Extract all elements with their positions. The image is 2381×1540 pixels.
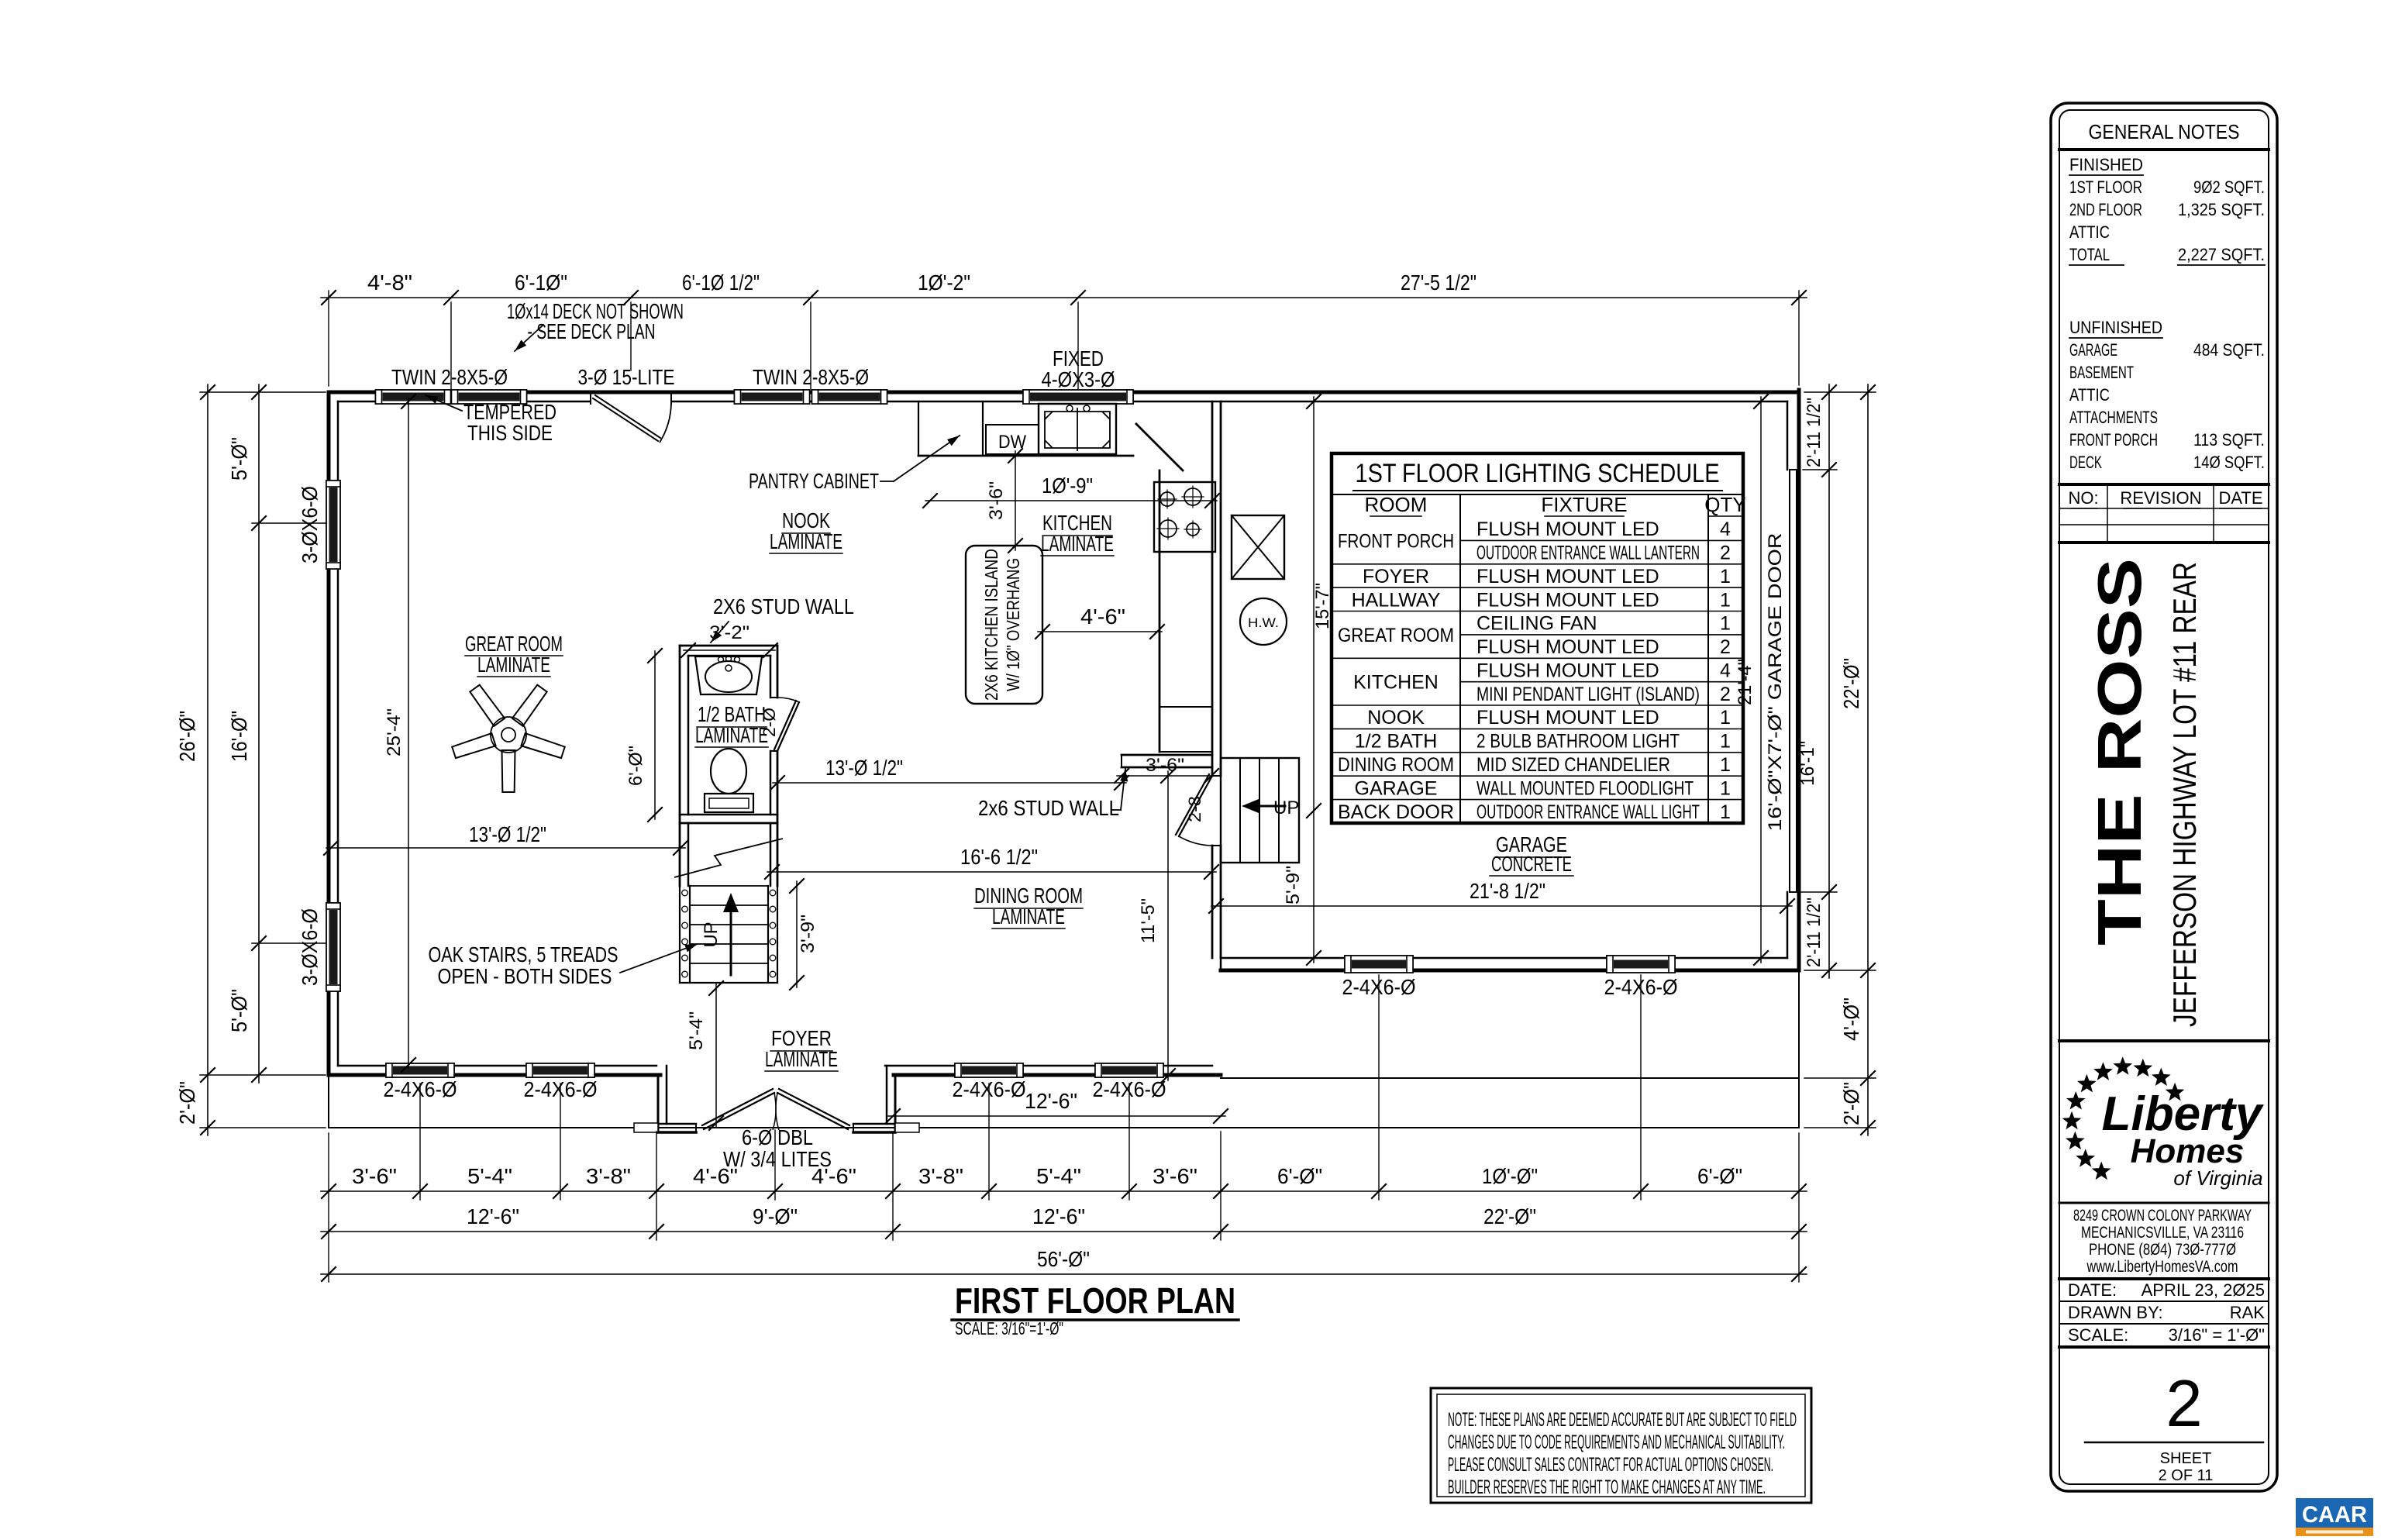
svg-text:LAMINATE: LAMINATE xyxy=(695,723,768,747)
porch left edge xyxy=(328,1075,329,1128)
svg-text:12'-6": 12'-6" xyxy=(1025,1089,1077,1113)
svg-text:LAMINATE: LAMINATE xyxy=(992,904,1065,928)
back door leaf xyxy=(1179,776,1212,836)
svg-text:9Ø2 SQFT.: 9Ø2 SQFT. xyxy=(2193,177,2265,197)
svg-text:REVISION: REVISION xyxy=(2120,488,2201,508)
svg-text:6'-Ø": 6'-Ø" xyxy=(625,746,646,786)
svg-text:3'-8": 3'-8" xyxy=(918,1164,963,1188)
svg-text:6'-1Ø 1/2": 6'-1Ø 1/2" xyxy=(682,270,760,295)
svg-text:2'-11 1/2": 2'-11 1/2" xyxy=(1804,897,1825,967)
window TWIN 2-8X5-0 (left pair, rear wall) xyxy=(376,390,451,404)
garage steps risers xyxy=(1239,758,1241,863)
svg-text:1: 1 xyxy=(1720,707,1731,729)
half bath top wall xyxy=(680,645,777,647)
svg-text:LAMINATE: LAMINATE xyxy=(770,529,842,553)
bath sink bowl oval xyxy=(705,661,752,692)
foyer door center arcs xyxy=(773,1093,776,1130)
svg-text:8249 CROWN COLONY PARKWAY: 8249 CROWN COLONY PARKWAY xyxy=(2073,1207,2252,1225)
svg-text:FIRST FLOOR PLAN: FIRST FLOOR PLAN xyxy=(955,1280,1235,1321)
foyer recess left jamb xyxy=(657,1075,660,1130)
svg-text:5'-4": 5'-4" xyxy=(1036,1164,1081,1188)
left outer dimension line 26'-0" and 2'-0" xyxy=(207,384,208,1135)
svg-text:APRIL 23, 2Ø25: APRIL 23, 2Ø25 xyxy=(2142,1280,2265,1300)
half bath door swing arc xyxy=(778,698,799,702)
address divider xyxy=(2059,1202,2269,1204)
svg-text:ROOM: ROOM xyxy=(1365,493,1428,516)
svg-text:FLUSH MOUNT LED: FLUSH MOUNT LED xyxy=(1476,589,1659,611)
svg-text:DATE: DATE xyxy=(2218,488,2262,508)
svg-text:UP: UP xyxy=(1273,798,1299,818)
stair balusters right xyxy=(770,890,776,896)
front wall left section inner xyxy=(338,1065,656,1067)
note box outer border xyxy=(1431,1388,1811,1503)
svg-text:FLUSH MOUNT LED: FLUSH MOUNT LED xyxy=(1476,566,1659,587)
revision table lines xyxy=(2059,508,2269,509)
dining width dimension 12'-6" xyxy=(888,1115,1225,1117)
kitchen counter bottom edge xyxy=(918,455,1133,457)
porch right edge xyxy=(1798,970,1800,1128)
svg-text:FIXTURE: FIXTURE xyxy=(1541,493,1627,516)
svg-text:FLUSH MOUNT LED: FLUSH MOUNT LED xyxy=(1476,707,1659,729)
pantry leader arrow xyxy=(880,481,894,482)
svg-text:3-ØX6-Ø: 3-ØX6-Ø xyxy=(298,908,322,986)
svg-text:UP: UP xyxy=(701,922,722,947)
svg-text:26'-Ø": 26'-Ø" xyxy=(175,711,199,762)
kitchen cabinet bottom section xyxy=(1159,706,1212,708)
svg-text:3-ØX6-Ø: 3-ØX6-Ø xyxy=(298,486,322,563)
svg-text:484 SQFT.: 484 SQFT. xyxy=(2193,340,2265,360)
title block inner border xyxy=(2059,110,2269,1484)
dimension 11'-5" (rotated) xyxy=(1167,771,1169,1080)
great room ceiling fan xyxy=(502,750,515,792)
svg-text:5'-9": 5'-9" xyxy=(1283,866,1304,904)
svg-text:14Ø SQFT.: 14Ø SQFT. xyxy=(2193,453,2265,472)
svg-text:2X6 STUD WALL: 2X6 STUD WALL xyxy=(713,594,854,618)
svg-text:2: 2 xyxy=(1720,684,1731,705)
window 2-4X6-0 garage front #1 xyxy=(1345,956,1413,973)
svg-text:2: 2 xyxy=(2166,1367,2202,1441)
right extension lines xyxy=(1804,391,1876,393)
bath depth dimension 6'-0" (rotated) xyxy=(654,651,656,819)
svg-text:1Ø'-Ø": 1Ø'-Ø" xyxy=(1482,1164,1538,1188)
svg-text:TOTAL: TOTAL xyxy=(2069,245,2110,264)
island gap dimension 3'-6" (rotated) xyxy=(1015,451,1016,550)
garage door panel on right wall xyxy=(1790,470,1797,892)
svg-text:GARAGE: GARAGE xyxy=(2069,340,2117,360)
svg-text:FLUSH MOUNT LED: FLUSH MOUNT LED xyxy=(1476,660,1659,682)
closet wall by back door xyxy=(1122,754,1212,756)
svg-text:6'-1Ø": 6'-1Ø" xyxy=(515,270,567,295)
svg-text:4'-6": 4'-6" xyxy=(811,1164,856,1188)
svg-text:16'-Ø"X7'-Ø" GARAGE DOOR: 16'-Ø"X7'-Ø" GARAGE DOOR xyxy=(1765,533,1786,832)
svg-text:22'-Ø": 22'-Ø" xyxy=(1483,1204,1536,1228)
svg-text:1Ø'-2": 1Ø'-2" xyxy=(918,270,970,295)
svg-text:www.LibertyHomesVA.com: www.LibertyHomesVA.com xyxy=(2086,1258,2238,1276)
stair break line xyxy=(674,839,783,877)
svg-text:6'-Ø": 6'-Ø" xyxy=(1277,1164,1322,1188)
front wall right section outer xyxy=(894,1073,1221,1077)
toilet bowl xyxy=(711,749,746,794)
svg-text:SCALE:: SCALE: xyxy=(2068,1325,2128,1345)
porch front edge line xyxy=(329,1127,1799,1128)
svg-text:FLUSH MOUNT LED: FLUSH MOUNT LED xyxy=(1476,519,1659,540)
svg-text:PANTRY CABINET: PANTRY CABINET xyxy=(749,469,879,493)
svg-text:9'-Ø": 9'-Ø" xyxy=(753,1204,798,1228)
garage front wall outer xyxy=(1221,969,1799,973)
svg-text:OPEN - BOTH SIDES: OPEN - BOTH SIDES xyxy=(438,964,612,988)
garage steps UP arrow xyxy=(1253,805,1285,808)
svg-text:W/ 1Ø" OVERHANG: W/ 1Ø" OVERHANG xyxy=(1003,558,1023,691)
svg-text:56'-Ø": 56'-Ø" xyxy=(1037,1247,1090,1271)
svg-text:DRAWN BY:: DRAWN BY: xyxy=(2068,1303,2163,1322)
svg-text:12'-6": 12'-6" xyxy=(467,1204,519,1228)
garage interior dimension 15'-7" and 5'-9" line xyxy=(1313,397,1315,963)
svg-text:3-Ø 15-LITE: 3-Ø 15-LITE xyxy=(578,365,675,389)
CAAR logo blue box xyxy=(2296,1498,2373,1528)
closet dimension 3'-6" xyxy=(1117,775,1216,777)
svg-text:2ND FLOOR: 2ND FLOOR xyxy=(2069,200,2142,219)
svg-text:2 OF 11: 2 OF 11 xyxy=(2159,1467,2214,1484)
svg-text:H.W.: H.W. xyxy=(1248,615,1279,630)
svg-text:3'-8": 3'-8" xyxy=(586,1164,631,1188)
svg-text:FINISHED: FINISHED xyxy=(2069,155,2143,174)
svg-text:2X6 KITCHEN ISLAND: 2X6 KITCHEN ISLAND xyxy=(981,549,1001,701)
svg-text:- SEE DECK PLAN: - SEE DECK PLAN xyxy=(528,319,656,343)
bottom extension lines xyxy=(328,1133,329,1282)
window 2-4X6-0 front wall #1 xyxy=(386,1063,454,1077)
svg-text:FRONT PORCH: FRONT PORCH xyxy=(1338,530,1454,552)
svg-text:LAMINATE: LAMINATE xyxy=(1041,532,1114,556)
stoop edge in front of garage xyxy=(1221,1077,1799,1079)
back door swing arc xyxy=(1179,836,1212,846)
svg-text:4: 4 xyxy=(1720,519,1731,540)
exterior wall - top (rear) outer line xyxy=(329,391,1799,394)
svg-text:12'-6": 12'-6" xyxy=(1032,1204,1085,1228)
svg-text:of Virginia: of Virginia xyxy=(2173,1166,2262,1190)
svg-text:NOOK: NOOK xyxy=(1367,707,1425,729)
kitchen island rounded rect xyxy=(966,546,1042,704)
garage width dimension 21'-8 1/2" xyxy=(1211,905,1792,907)
oak stairs leader xyxy=(620,944,698,973)
svg-text:4'-6": 4'-6" xyxy=(1080,605,1125,629)
top dimension extension lines xyxy=(328,291,329,386)
svg-text:CHANGES DUE TO CODE REQUIREMEN: CHANGES DUE TO CODE REQUIREMENTS AND MEC… xyxy=(1448,1431,1785,1453)
svg-text:TWIN 2-8X5-Ø: TWIN 2-8X5-Ø xyxy=(391,365,508,389)
interior dimension 25'-4" (rotated) xyxy=(408,398,409,1068)
stair treads xyxy=(690,885,768,887)
svg-text:2'-11 1/2": 2'-11 1/2" xyxy=(1804,398,1825,467)
svg-text:2 BULB BATHROOM LIGHT: 2 BULB BATHROOM LIGHT xyxy=(1476,731,1680,753)
revision table bottom border xyxy=(2059,541,2269,544)
window 2-4X6-0 front wall #3 xyxy=(955,1063,1023,1077)
svg-text:MECHANICSVILLE, VA 23116: MECHANICSVILLE, VA 23116 xyxy=(2081,1224,2244,1242)
svg-text:RAK: RAK xyxy=(2230,1303,2266,1322)
svg-text:MID SIZED CHANDELIER: MID SIZED CHANDELIER xyxy=(1476,754,1670,776)
exterior wall - right outer (garage) xyxy=(1797,390,1801,970)
garage interior width dimension 21'-4" (rotated) xyxy=(1760,397,1762,963)
svg-text:21'-8 1/2": 21'-8 1/2" xyxy=(1470,879,1545,903)
svg-text:22'-Ø": 22'-Ø" xyxy=(1839,658,1863,709)
foyer double door 6-0 DBL leaves xyxy=(704,1093,774,1129)
svg-text:13'-Ø 1/2": 13'-Ø 1/2" xyxy=(469,822,546,846)
lighting schedule outer border xyxy=(1332,453,1743,823)
svg-text:GREAT ROOM: GREAT ROOM xyxy=(1338,625,1454,646)
foyer front wall with door opening xyxy=(658,1131,696,1134)
top dimension line xyxy=(321,297,1807,298)
left inner dimension line 5/16/5 xyxy=(258,384,260,1083)
svg-text:LAMINATE: LAMINATE xyxy=(477,653,550,677)
svg-text:ATTIC: ATTIC xyxy=(2069,385,2110,405)
svg-text:27'-5 1/2": 27'-5 1/2" xyxy=(1401,270,1476,295)
exterior wall - top inner line xyxy=(338,401,1787,403)
svg-text:3'-9": 3'-9" xyxy=(798,915,818,953)
svg-text:FOYER: FOYER xyxy=(1363,566,1429,587)
great room dimension 13'-0 1/2" xyxy=(326,847,685,849)
svg-text:DINING ROOM: DINING ROOM xyxy=(1338,754,1454,776)
exterior wall - left inner xyxy=(337,401,339,1066)
window TWIN 2-8X5-0 (second pair, rear wall) xyxy=(735,390,810,404)
lighting schedule row lines xyxy=(1460,539,1743,541)
svg-text:1ST FLOOR: 1ST FLOOR xyxy=(2069,177,2142,197)
left extension lines xyxy=(200,391,326,393)
svg-text:3'-6": 3'-6" xyxy=(986,481,1007,520)
svg-text:ATTIC: ATTIC xyxy=(2069,222,2110,242)
front wall left section outer xyxy=(329,1073,660,1077)
svg-text:NOTE: THESE PLANS ARE DEEMED A: NOTE: THESE PLANS ARE DEEMED ACCURATE BU… xyxy=(1448,1409,1797,1431)
svg-text:THIS SIDE: THIS SIDE xyxy=(467,421,553,445)
svg-text:UNFINISHED: UNFINISHED xyxy=(2069,318,2162,337)
svg-text:16'-6 1/2": 16'-6 1/2" xyxy=(960,845,1038,869)
svg-text:5'-4": 5'-4" xyxy=(686,1011,707,1050)
tempered note leader xyxy=(426,395,462,411)
lighting schedule header row xyxy=(1332,494,1743,495)
window 2-4X6-0 garage front #2 xyxy=(1607,956,1675,973)
house-garage dividing wall xyxy=(1211,401,1214,776)
garage entry steps xyxy=(1221,758,1299,863)
porch post left of entry xyxy=(634,1123,658,1132)
svg-text:1ST FLOOR LIGHTING SCHEDULE: 1ST FLOOR LIGHTING SCHEDULE xyxy=(1356,459,1720,488)
svg-text:DATE:: DATE: xyxy=(2068,1280,2117,1300)
svg-text:OUTDOOR ENTRANCE WALL LANTERN: OUTDOOR ENTRANCE WALL LANTERN xyxy=(1476,543,1700,564)
svg-text:16'-1": 16'-1" xyxy=(1797,741,1818,786)
svg-text:1,325 SQFT.: 1,325 SQFT. xyxy=(2178,200,2265,219)
title block outer border xyxy=(2051,103,2277,1491)
info rows divider xyxy=(2059,1277,2269,1280)
exterior wall - right inner segments xyxy=(1787,401,1789,470)
rear deck door 3-0 15-LITE opening xyxy=(591,395,671,404)
svg-text:4'-Ø": 4'-Ø" xyxy=(1839,997,1863,1041)
window FIXED 4-0X3-0 above kitchen sink xyxy=(1023,390,1133,404)
svg-text:CEILING FAN: CEILING FAN xyxy=(1476,613,1597,635)
rear door swing arc xyxy=(660,402,671,443)
range/stove box xyxy=(1154,482,1215,552)
svg-text:PHONE (8Ø4) 73Ø-777Ø: PHONE (8Ø4) 73Ø-777Ø xyxy=(2089,1241,2236,1259)
right inner dimension line (2'-11 1/2", 16'-1", 2'-11 1/2") xyxy=(1828,384,1830,978)
stair balusters left xyxy=(682,890,688,896)
svg-text:HALLWAY: HALLWAY xyxy=(1352,589,1441,611)
window 3-0X6-0 upper left wall xyxy=(326,481,340,569)
svg-text:LAMINATE: LAMINATE xyxy=(765,1047,838,1071)
svg-text:2'-Ø": 2'-Ø" xyxy=(1839,1082,1863,1125)
svg-text:3/16" = 1'-Ø": 3/16" = 1'-Ø" xyxy=(2169,1325,2265,1345)
stud wall leader lower xyxy=(1111,809,1121,811)
svg-text:2x6 STUD WALL: 2x6 STUD WALL xyxy=(978,796,1119,820)
svg-text:1: 1 xyxy=(1720,613,1731,635)
svg-text:OAK STAIRS, 5 TREADS: OAK STAIRS, 5 TREADS xyxy=(429,942,619,966)
svg-text:GENERAL NOTES: GENERAL NOTES xyxy=(2089,120,2240,143)
exterior wall - left outer xyxy=(327,392,331,1075)
bottom dimension row 2 xyxy=(321,1231,1807,1232)
svg-text:NO:: NO: xyxy=(2068,488,2098,508)
stair rails xyxy=(679,886,681,983)
svg-text:1: 1 xyxy=(1720,589,1731,611)
svg-text:2: 2 xyxy=(1720,543,1731,564)
window 3-0X6-0 lower left wall xyxy=(326,903,340,991)
svg-text:4: 4 xyxy=(1720,660,1731,682)
half bath right wall with door opening xyxy=(777,646,779,698)
deck note leader arrow xyxy=(515,326,543,351)
sheet number underline xyxy=(2085,1442,2263,1444)
stair well side walls below bath xyxy=(679,823,681,886)
svg-text:6'-Ø": 6'-Ø" xyxy=(1697,1164,1742,1188)
svg-text:3'-6": 3'-6" xyxy=(1153,1164,1197,1188)
svg-text:1: 1 xyxy=(1720,754,1731,776)
svg-text:JEFFERSON HIGHWAY LOT #11 REAR: JEFFERSON HIGHWAY LOT #11 REAR xyxy=(2166,562,2203,1027)
CAAR logo orange strip xyxy=(2296,1528,2373,1536)
svg-text:25'-4": 25'-4" xyxy=(384,708,405,756)
toilet tank xyxy=(705,794,753,812)
svg-text:3'-6": 3'-6" xyxy=(352,1164,397,1188)
foyer recess right jamb xyxy=(894,1075,897,1130)
furnace X-box xyxy=(1232,515,1284,579)
half bath door leaf xyxy=(777,702,799,751)
pantry cabinet box xyxy=(918,401,919,456)
bath width dimension 3'-2" xyxy=(684,649,775,651)
svg-text:BASEMENT: BASEMENT xyxy=(2069,363,2134,382)
svg-text:PLEASE CONSULT SALES CONTRACT: PLEASE CONSULT SALES CONTRACT FOR ACTUAL… xyxy=(1448,1454,1773,1476)
svg-text:1/2 BATH: 1/2 BATH xyxy=(1355,731,1438,753)
porch post right of entry xyxy=(895,1123,919,1132)
logo section divider xyxy=(2059,1039,2269,1042)
svg-text:MINI PENDANT LIGHT (ISLAND): MINI PENDANT LIGHT (ISLAND) xyxy=(1476,684,1700,705)
kitchen dimension 10'-9" xyxy=(925,500,1217,501)
svg-text:CONCRETE: CONCRETE xyxy=(1491,852,1572,876)
svg-text:3'-6": 3'-6" xyxy=(1146,755,1184,776)
svg-text:5'-Ø": 5'-Ø" xyxy=(227,437,251,481)
stair UP arrow xyxy=(730,908,732,975)
right outer dimension line (22'-0", 4'-0", 2'-0") xyxy=(1867,384,1869,1135)
svg-text:OUTDOOR ENTRANCE WALL LIGHT: OUTDOOR ENTRANCE WALL LIGHT xyxy=(1476,801,1700,823)
svg-text:5'-4": 5'-4" xyxy=(467,1164,512,1188)
svg-text:1: 1 xyxy=(1720,731,1731,753)
svg-text:6-Ø DBL: 6-Ø DBL xyxy=(742,1125,813,1149)
front wall right section inner xyxy=(885,1065,1212,1067)
svg-text:1: 1 xyxy=(1720,566,1731,587)
svg-text:1Ø'-9": 1Ø'-9" xyxy=(1042,474,1093,498)
svg-text:1: 1 xyxy=(1720,777,1731,799)
svg-text:4'-8": 4'-8" xyxy=(367,270,412,295)
svg-text:BACK DOOR: BACK DOOR xyxy=(1338,801,1454,823)
svg-text:BUILDER RESERVES THE RIGHT TO: BUILDER RESERVES THE RIGHT TO MAKE CHANG… xyxy=(1448,1476,1766,1498)
svg-text:13'-Ø 1/2": 13'-Ø 1/2" xyxy=(825,756,903,780)
svg-text:5'-Ø": 5'-Ø" xyxy=(227,989,251,1032)
svg-text:KITCHEN: KITCHEN xyxy=(1353,672,1439,694)
svg-text:2'-Ø": 2'-Ø" xyxy=(175,1081,199,1125)
water heater circle H.W. xyxy=(1240,598,1287,645)
svg-text:1: 1 xyxy=(1720,801,1731,823)
half bath left wall xyxy=(679,646,681,823)
svg-text:16'-Ø": 16'-Ø" xyxy=(227,711,251,762)
garage front wall inner xyxy=(1221,957,1787,959)
stud wall leader upper xyxy=(711,622,729,643)
rear door leaf xyxy=(593,398,658,441)
svg-text:QTY: QTY xyxy=(1704,493,1745,516)
svg-text:CAAR: CAAR xyxy=(2302,1502,2367,1528)
svg-text:GARAGE: GARAGE xyxy=(1355,777,1438,799)
general notes divider xyxy=(2059,148,2269,151)
svg-text:ATTACHMENTS: ATTACHMENTS xyxy=(2069,408,2158,427)
svg-text:2: 2 xyxy=(1720,636,1731,658)
bath sink faucet dots xyxy=(718,657,724,663)
window 2-4X6-0 front wall #4 xyxy=(1095,1063,1163,1077)
svg-text:4'-6": 4'-6" xyxy=(693,1164,738,1188)
bottom dimension row 1 xyxy=(321,1190,1807,1192)
stair width dimension 3'-9" (rotated) xyxy=(796,881,798,987)
kitchen counter right edge xyxy=(1159,470,1161,752)
dishwasher box xyxy=(986,425,1039,454)
svg-text:11'-5": 11'-5" xyxy=(1138,898,1159,943)
bottom dimension row 3 56'-0" xyxy=(321,1273,1807,1275)
dining dimension 16'-6 1/2" xyxy=(767,871,1216,873)
lighting schedule column lines xyxy=(1459,494,1461,823)
island to counter dimension 4'-6" xyxy=(1038,631,1162,632)
revision table top border xyxy=(2059,483,2269,486)
svg-text:2-8: 2-8 xyxy=(1185,796,1204,822)
range burners xyxy=(1160,492,1174,506)
svg-text:FRONT PORCH: FRONT PORCH xyxy=(2069,430,2158,450)
svg-text:DECK: DECK xyxy=(2069,453,2102,472)
svg-text:SCALE: 3/16"=1'-Ø": SCALE: 3/16"=1'-Ø" xyxy=(955,1318,1063,1338)
kitchen corner cabinet diagonal xyxy=(1136,424,1183,470)
bath sink counter xyxy=(695,656,762,694)
svg-text:THE ROSS: THE ROSS xyxy=(2085,558,2154,946)
kitchen sink double basin xyxy=(1039,404,1116,454)
note box inner border xyxy=(1437,1394,1805,1497)
svg-text:Homes: Homes xyxy=(2131,1132,2245,1170)
svg-text:WALL MOUNTED FLOODLIGHT: WALL MOUNTED FLOODLIGHT xyxy=(1476,777,1694,799)
window 2-4X6-0 front wall #2 xyxy=(526,1063,594,1077)
foyer depth dimension 5'-4" (rotated) xyxy=(715,984,717,1128)
svg-text:SHEET: SHEET xyxy=(2160,1450,2212,1467)
Liberty Homes logo stars xyxy=(2092,1162,2111,1180)
svg-text:113 SQFT.: 113 SQFT. xyxy=(2193,430,2265,450)
svg-text:FLUSH MOUNT LED: FLUSH MOUNT LED xyxy=(1476,636,1659,658)
svg-text:2,227 SQFT.: 2,227 SQFT. xyxy=(2178,245,2265,264)
half bath bottom wall xyxy=(680,814,777,816)
hallway dimension 13'-0 1/2" xyxy=(773,782,1126,784)
